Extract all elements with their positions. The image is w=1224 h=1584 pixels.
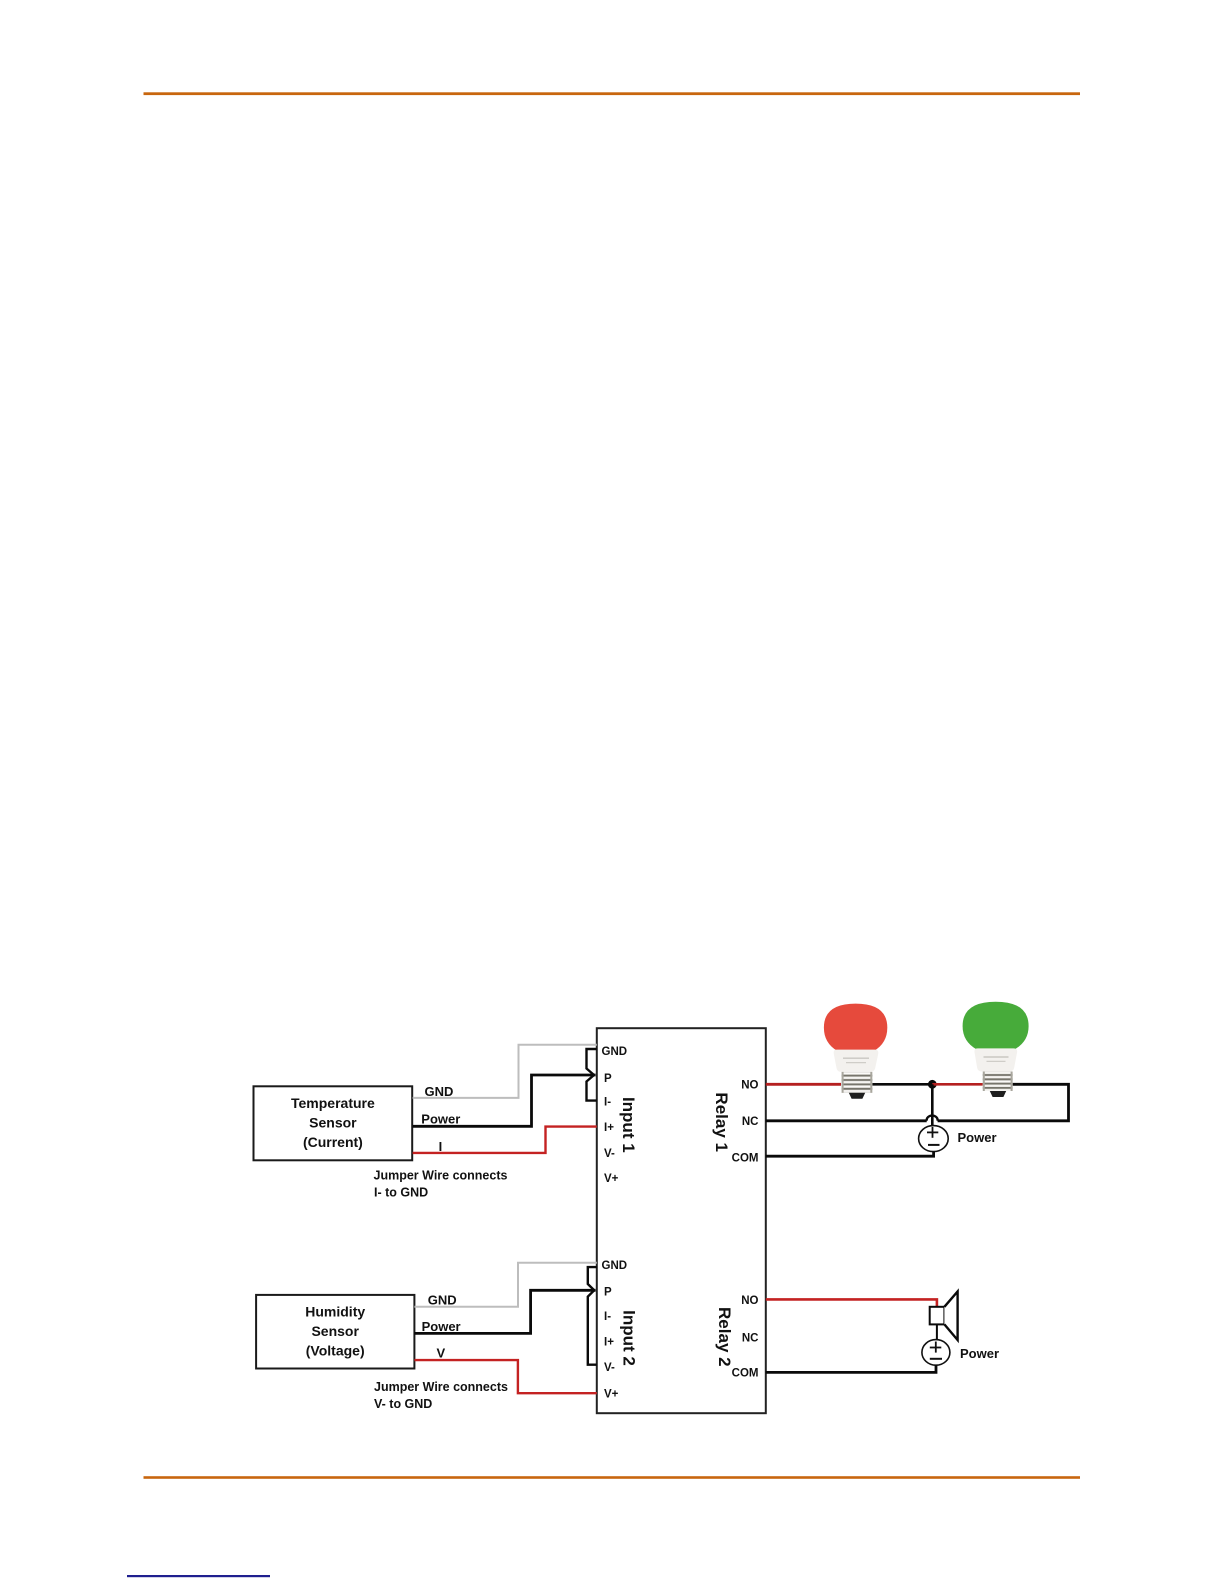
svg-text:Power: Power xyxy=(421,1111,460,1126)
svg-text:Relay 1: Relay 1 xyxy=(712,1092,731,1152)
svg-text:Humidity: Humidity xyxy=(305,1304,365,1320)
svg-text:GND: GND xyxy=(602,1046,628,1058)
NC wire hop over junction drop xyxy=(927,1115,938,1120)
jumper bracket input 1 xyxy=(587,1049,597,1101)
svg-text:P: P xyxy=(604,1073,612,1085)
temperature sensor box xyxy=(254,1086,413,1160)
svg-text:V+: V+ xyxy=(604,1173,619,1185)
svg-text:I: I xyxy=(439,1139,443,1154)
svg-text:NO: NO xyxy=(741,1080,758,1092)
power source 2 xyxy=(922,1340,950,1366)
svg-text:V-: V- xyxy=(604,1362,615,1374)
svg-text:Power: Power xyxy=(960,1346,999,1361)
footer blue hyperlink underline xyxy=(127,1575,270,1577)
wire I temperature (red) xyxy=(413,1127,597,1153)
svg-text:Sensor: Sensor xyxy=(311,1323,359,1339)
top orange rule xyxy=(144,92,1081,95)
wire V humidity (red) xyxy=(414,1360,596,1393)
svg-text:Power: Power xyxy=(422,1319,461,1334)
svg-text:V: V xyxy=(437,1346,446,1361)
svg-text:Power: Power xyxy=(958,1130,997,1145)
svg-text:NC: NC xyxy=(742,1333,759,1345)
svg-text:Input 2: Input 2 xyxy=(619,1310,638,1366)
svg-text:NC: NC xyxy=(742,1116,759,1128)
svg-text:Sensor: Sensor xyxy=(309,1115,357,1131)
svg-text:COM: COM xyxy=(732,1368,759,1380)
svg-text:V- to GND: V- to GND xyxy=(374,1397,432,1411)
svg-text:I-: I- xyxy=(604,1311,611,1323)
wire power 1 to COM (black) xyxy=(766,1152,934,1157)
jumper bracket input 2 xyxy=(588,1267,597,1365)
svg-text:COM: COM xyxy=(732,1152,759,1164)
wire junction to green bulb (red) xyxy=(932,1083,983,1086)
svg-text:Jumper Wire connects: Jumper Wire connects xyxy=(374,1380,508,1394)
svg-text:I- to GND: I- to GND xyxy=(374,1186,428,1200)
svg-text:V-: V- xyxy=(604,1148,615,1160)
relay 2 NO wire (red, to speaker) xyxy=(766,1299,937,1306)
svg-text:Jumper Wire connects: Jumper Wire connects xyxy=(374,1169,508,1183)
wire red bulb to junction (black) xyxy=(873,1083,933,1086)
power source 1 xyxy=(919,1126,949,1152)
bottom orange rule xyxy=(144,1476,1081,1479)
svg-text:P: P xyxy=(604,1287,612,1299)
svg-text:NO: NO xyxy=(741,1295,758,1307)
svg-text:Relay 2: Relay 2 xyxy=(715,1307,734,1367)
NC wire left segment (black) xyxy=(766,1119,927,1122)
wire speaker to power 2 xyxy=(936,1324,938,1351)
red bulb xyxy=(824,1004,887,1099)
svg-text:Input 1: Input 1 xyxy=(619,1097,638,1153)
svg-text:GND: GND xyxy=(425,1084,454,1099)
wire junction down to power 1 xyxy=(931,1084,934,1137)
svg-text:(Current): (Current) xyxy=(303,1134,363,1150)
wire power 2 to COM (black) xyxy=(766,1365,936,1372)
speaker xyxy=(930,1307,945,1325)
svg-text:V+: V+ xyxy=(604,1388,619,1400)
relay 1 NO wire (red, to red bulb) xyxy=(766,1083,841,1086)
svg-text:I-: I- xyxy=(604,1096,611,1108)
svg-text:I+: I+ xyxy=(604,1122,614,1134)
wire Power humidity (black) xyxy=(414,1290,595,1333)
svg-text:(Voltage): (Voltage) xyxy=(306,1343,365,1359)
svg-text:Temperature: Temperature xyxy=(291,1095,375,1111)
svg-text:GND: GND xyxy=(602,1260,628,1272)
svg-text:I+: I+ xyxy=(604,1336,614,1348)
junction node xyxy=(928,1080,937,1089)
wire Power temperature (black) xyxy=(413,1075,596,1126)
humidity sensor box xyxy=(256,1295,414,1369)
green bulb xyxy=(963,1002,1029,1097)
wire green bulb to right corner (black) xyxy=(938,1084,1069,1121)
svg-text:GND: GND xyxy=(428,1293,457,1308)
wire GND temperature (gray) xyxy=(413,1045,597,1098)
wire GND humidity (gray) xyxy=(414,1263,596,1307)
controller box xyxy=(597,1028,766,1413)
